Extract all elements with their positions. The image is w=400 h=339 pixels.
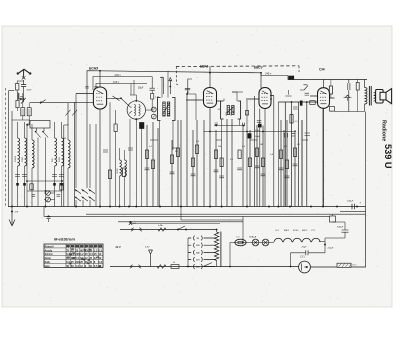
coil L8 osc [120, 160, 122, 176]
wire under osc circle [130, 80, 134, 207]
svg-text:+1Ω: +1Ω [62, 138, 66, 140]
wire 245v plate line [261, 73, 288, 76]
svg-text:5,5: 5,5 [76, 257, 80, 260]
node bus dots [11, 206, 13, 208]
loudspeaker [376, 89, 392, 104]
wire V2 top feed [209, 66, 211, 87]
fuse A 0.2A [158, 228, 166, 231]
plug contacts A [131, 228, 142, 232]
svg-text:Röhre/V: Röhre/V [45, 245, 55, 248]
cap ticks left [20, 97, 23, 100]
band switch contacts [75, 189, 95, 201]
ladder right component [60, 184, 63, 191]
wire antenna down [23, 89, 25, 102]
resistor R1 left [16, 100, 19, 107]
thermal cutout C2 [235, 239, 246, 246]
tube V3 EBC3 [259, 88, 271, 109]
svg-text:EBF2: EBF2 [284, 230, 290, 232]
antenna break mark [22, 76, 26, 79]
osc circle marks [129, 106, 132, 114]
tube V2 EBF2 [204, 88, 217, 108]
node left junction [26, 124, 28, 126]
tone contact [344, 95, 352, 101]
wire osc coil leads [120, 148, 125, 207]
wire switch row drops [76, 200, 90, 207]
volume arrow mark [21, 98, 26, 104]
wire right column [301, 120, 303, 207]
wire vertical drops [146, 125, 148, 207]
svg-text:ECH3: ECH3 [293, 230, 299, 232]
wire IFT2 leads [160, 71, 174, 207]
svg-text:1,2: 1,2 [94, 249, 98, 252]
wire V1 lower left links [76, 94, 96, 207]
wire coil L6 leads [61, 122, 63, 207]
wire tap slant [204, 263, 212, 267]
wire coil L5 leads [54, 122, 56, 207]
measurement table [44, 244, 103, 268]
wire 240v line [93, 77, 152, 91]
wire coil L3 leads [24, 122, 26, 207]
wire chassis bus [8, 206, 366, 208]
IF transformer T3 [221, 101, 241, 119]
wire 115v line [96, 84, 147, 89]
bias box under CL4 [329, 107, 334, 112]
scan noise speckle [4, 29, 391, 305]
var arrow mark 1 [66, 110, 71, 116]
output transformer secondary [374, 93, 376, 101]
wire switch box drops [27, 124, 46, 207]
wire selector bottom [186, 266, 188, 268]
cap marks near V1 top [85, 87, 97, 89]
box 249 lower [248, 134, 251, 139]
wire cap row [291, 252, 326, 254]
svg-text:10000: 10000 [117, 168, 119, 174]
wire V1 cathode drop [99, 109, 101, 207]
svg-text:0,3: 0,3 [99, 249, 103, 252]
antenna coil block B [27, 108, 31, 116]
dial lamp [149, 250, 153, 267]
svg-text:50nF: 50nF [255, 130, 261, 132]
IF transformer T2 [158, 98, 176, 121]
sub bus cap 2 [243, 123, 245, 126]
wire bus 5 pair [118, 221, 243, 223]
antenna coil L1 [16, 84, 19, 91]
resistor RB [171, 265, 179, 269]
svg-text:+50μF: +50μF [327, 247, 334, 249]
svg-text:5,5: 5,5 [94, 265, 98, 268]
coil L6 tuning [62, 138, 64, 166]
coil L7 tuning [68, 140, 70, 168]
wire column 87 [86, 90, 88, 188]
ladder box [30, 184, 33, 190]
wire bus 3 [44, 207, 330, 217]
selector tap rows [188, 236, 215, 241]
dashed gang drop left [176, 67, 178, 86]
svg-text:500μF: 500μF [337, 226, 344, 228]
grid trimmer cap [112, 96, 121, 101]
autotransformer core bar [220, 232, 222, 268]
output transformer core [368, 86, 370, 106]
resistor R anode [329, 86, 332, 94]
fuse B [157, 265, 166, 269]
svg-text:3000: 3000 [231, 112, 233, 116]
svg-text:1M: 1M [260, 144, 263, 146]
wire scale lamp branch [229, 243, 231, 267]
ground symbol main [9, 212, 15, 226]
junction squares [16, 183, 63, 186]
trimmer T2b [151, 114, 156, 119]
wire 247 column [246, 100, 248, 207]
resistor 247 [245, 111, 248, 116]
antenna [17, 69, 31, 77]
heater extension wire [325, 237, 345, 239]
trimmer cap CT2 [46, 197, 51, 202]
wire coil L4 leads [31, 124, 33, 207]
wire transformer bottom [365, 104, 366, 207]
svg-text:Anode: Anode [45, 249, 53, 252]
wire tube3 lower columns [255, 96, 274, 207]
dashed antenna frame [5, 88, 7, 206]
bracket right of arrow [188, 79, 192, 94]
capacitor marks [145, 168, 150, 170]
resistor under V1 [114, 124, 117, 132]
wire transformer top [364, 80, 366, 88]
svg-text:2M: 2M [218, 146, 221, 148]
wire V1 grid lines [30, 94, 93, 103]
wire bus 4 [181, 207, 243, 221]
cap at 152 [150, 77, 155, 91]
switch slash on grid line [40, 100, 46, 104]
wire osc col 110 [109, 102, 111, 206]
speaker feed fork [352, 80, 359, 90]
coil L2 tuning [18, 138, 20, 166]
resistor R right [356, 83, 359, 91]
svg-text:22 V: 22 V [116, 246, 121, 249]
tube V4 CL4 [318, 88, 330, 109]
svg-text:100μF: 100μF [347, 200, 354, 202]
wire right rail down [351, 207, 366, 268]
capacitor C5 [128, 148, 133, 150]
trimmer T2a [151, 107, 156, 112]
dashed gang box top [176, 65, 299, 68]
small box under osc [140, 123, 144, 129]
wire V4 grid lines [278, 96, 334, 102]
coil L5 tuning [55, 138, 57, 166]
ladder caps [32, 195, 61, 197]
svg-text:Schirm: Schirm [45, 253, 53, 256]
wire mixer columns [64, 102, 75, 206]
resistor 70V [337, 263, 351, 267]
ladder left horizontals [27, 180, 62, 182]
svg-text:0,2A: 0,2A [158, 224, 163, 227]
cap marks tube3 [257, 121, 262, 123]
svg-text:EBC3: EBC3 [254, 66, 263, 70]
wire V3 top feed [260, 73, 262, 88]
svg-text:2nF: 2nF [15, 212, 19, 214]
bracket left of arrow [160, 78, 164, 94]
trimmer cap CT1 [46, 191, 51, 196]
tube V1 ECH3 [93, 87, 106, 109]
wire line B to CY1 [186, 266, 299, 268]
wire coil L2 leads [17, 122, 19, 207]
scale lamp 2 [262, 239, 269, 246]
osc circle [127, 101, 145, 119]
svg-text:Heiz.: Heiz. [45, 265, 51, 268]
svg-text:1,2: 1,2 [80, 253, 84, 256]
switch left of CL4 [300, 85, 308, 90]
svg-text:6,3V: 6,3V [145, 246, 150, 248]
resistor box right [330, 216, 336, 222]
svg-text:0,3: 0,3 [99, 261, 103, 264]
junction dots upper band [186, 93, 188, 95]
svg-text:EBC3: EBC3 [302, 230, 308, 232]
capacitor 100uF [352, 204, 355, 209]
wire CY1 output [310, 266, 337, 268]
svg-text:25μF: 25μF [302, 246, 308, 248]
svg-text:Radione: Radione [381, 120, 387, 141]
svg-text:7000: 7000 [22, 156, 24, 162]
coil L9 osc [125, 160, 127, 176]
antenna choke [17, 93, 21, 99]
svg-text:M-eßStrom: M-eßStrom [54, 236, 75, 241]
capacitor 500uF [333, 222, 349, 238]
wire left rail B [12, 111, 30, 212]
dashed gang drop right [298, 66, 300, 72]
svg-text:ECH3: ECH3 [89, 66, 98, 70]
wire mains line A [120, 229, 217, 231]
blob left [300, 101, 302, 106]
svg-text:5000: 5000 [59, 156, 61, 162]
svg-text:6000: 6000 [226, 112, 228, 116]
wire IFT4 leads [264, 73, 266, 88]
svg-text:Kath.: Kath. [45, 261, 51, 264]
antenna input cap C1 [21, 80, 26, 89]
svg-text:115 v: 115 v [113, 80, 120, 84]
svg-text:Gitter: Gitter [45, 257, 51, 260]
antenna coil block A [21, 108, 25, 116]
svg-text:240 v: 240 v [115, 73, 122, 77]
scale lamp 1 [252, 239, 259, 246]
switch contact pair 1 [35, 128, 41, 138]
svg-text:50nF: 50nF [255, 136, 261, 138]
svg-text:50μF: 50μF [138, 87, 144, 89]
wire IFT3 leads [222, 92, 240, 207]
wire V1 plate to top [99, 71, 101, 87]
heater chain [274, 238, 320, 242]
wire winding feed [216, 230, 218, 267]
cathode cap mark [129, 222, 132, 225]
wire mains line B [110, 266, 186, 268]
svg-text:Cl4: Cl4 [319, 67, 325, 71]
cap 2nF on bus3 [47, 217, 51, 222]
selector left rail [187, 238, 189, 267]
output transformer primary [365, 88, 368, 105]
screen bypass box [289, 76, 294, 79]
wire coil L7 leads [67, 124, 69, 207]
plug contacts B [130, 265, 141, 269]
padding caps row [15, 175, 64, 177]
svg-text:10000: 10000 [15, 155, 17, 162]
resistor boxes [145, 150, 148, 159]
tuning indicator arrow [169, 78, 172, 94]
wire V2 grid line [186, 100, 221, 101]
wire V4 plate down [323, 108, 325, 206]
resistor on CL4 grid line [310, 101, 315, 105]
wire sub bus 2 [204, 131, 297, 133]
wire lamp row [230, 242, 274, 244]
wire top supply line [87, 71, 261, 90]
capacitor C coupling [348, 80, 350, 112]
var arrow mark 2 [72, 110, 77, 116]
capacitor C6 [103, 150, 108, 152]
wire horizontal links upper band [187, 94, 196, 120]
wire osc circle leads [121, 95, 136, 207]
wire bus 2 [86, 213, 366, 215]
cap left of CL4 [305, 93, 309, 95]
svg-text:50nF: 50nF [27, 89, 33, 91]
wire V3 grid line [246, 96, 274, 100]
wire heater to cap [319, 238, 325, 253]
autotransformer winding [214, 232, 218, 261]
switch A [178, 226, 185, 230]
svg-text:CY1: CY1 [300, 256, 305, 259]
cap 25uF [306, 250, 308, 255]
osc circle coils [134, 105, 136, 116]
resistor at 152 [151, 94, 154, 100]
svg-text:245 v: 245 v [265, 72, 272, 76]
coil L4 tuning [32, 140, 34, 168]
wire bus right stub [340, 210, 366, 212]
coil L3 tuning [25, 138, 27, 166]
wire trimmer links [44, 193, 55, 200]
cap bar right bracket [185, 88, 190, 90]
waveband switch box [30, 121, 50, 129]
sub bus cap 1 [215, 123, 218, 124]
wire CL4 screen line [288, 76, 367, 80]
wire left stub [9, 91, 15, 207]
svg-text:1,2: 1,2 [76, 265, 80, 268]
rectifier CY1 [299, 261, 311, 273]
svg-text:0,3: 0,3 [89, 253, 93, 256]
switch contact pair 2 [43, 128, 49, 138]
svg-text:EBF2: EBF2 [200, 65, 208, 69]
wire V4 top feed [323, 80, 325, 88]
wire sub bus [214, 125, 245, 127]
svg-text:539 U: 539 U [383, 144, 393, 169]
